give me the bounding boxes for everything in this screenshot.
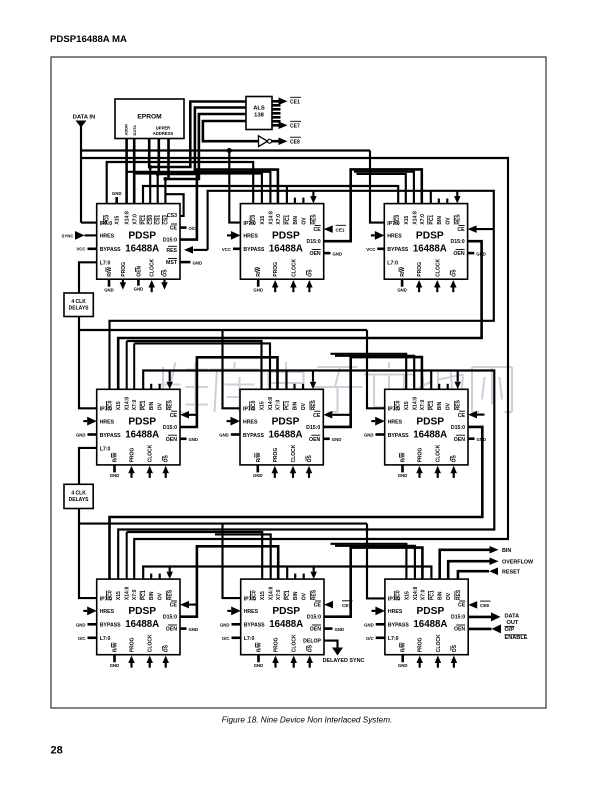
wire X14:8 feed U6: [335, 356, 414, 390]
svg-text:X14:8: X14:8: [125, 397, 131, 411]
svg-text:GND: GND: [333, 251, 343, 256]
svg-text:L7:0: L7:0: [244, 636, 255, 642]
svg-text:PROG: PROG: [130, 637, 136, 652]
svg-text:PROG: PROG: [274, 637, 280, 652]
svg-text:IP7:0: IP7:0: [100, 407, 113, 413]
wire U4 L7:0 to delay2: [79, 448, 97, 484]
svg-text:PROG: PROG: [418, 637, 424, 652]
svg-text:16488A: 16488A: [269, 244, 303, 255]
device U8 PDSP16488A: [241, 579, 324, 655]
clock/input arrow U9 CLOCK: [435, 656, 442, 668]
svg-text:PC1: PC1: [141, 400, 147, 410]
svg-text:VCC: VCC: [222, 247, 231, 252]
svg-text:RES: RES: [311, 214, 317, 225]
svg-text:PDSP: PDSP: [128, 606, 156, 617]
svg-text:IP7:0: IP7:0: [388, 407, 401, 413]
device U2 PDSP16488A: [240, 204, 323, 280]
svg-text:OS: OS: [164, 644, 170, 652]
svg-text:OEN: OEN: [454, 627, 465, 633]
wire X14:8 feed U9: [335, 546, 415, 579]
svg-text:PROG: PROG: [121, 262, 127, 277]
svg-text:X14:8: X14:8: [268, 397, 274, 411]
svg-text:HRES: HRES: [244, 609, 259, 615]
svg-text:BIN: BIN: [437, 591, 443, 600]
svg-text:CE7: CE7: [342, 603, 351, 608]
wire U3 PC1 drop: [430, 191, 432, 204]
net RESET input: [458, 567, 521, 579]
clock/input arrow U5 CLOCK: [290, 466, 297, 478]
wire branch to U5 IP7:0: [223, 330, 241, 408]
ALS138 output stubs: [272, 105, 281, 121]
wire PC1/RES distribution row2: [118, 371, 494, 580]
label O/C stub U7 L7:0: [78, 636, 97, 641]
svg-text:R/W: R/W: [113, 452, 119, 462]
svg-text:X7:0: X7:0: [420, 214, 426, 225]
ground stub U3 R/W: [397, 279, 407, 292]
svg-text:CS0: CS0: [148, 215, 154, 225]
svg-text:16488A: 16488A: [125, 619, 159, 630]
svg-text:OS: OS: [164, 455, 170, 463]
svg-text:PDSP16488A MA: PDSP16488A MA: [50, 34, 127, 45]
svg-text:RESET: RESET: [502, 569, 521, 575]
wire U2 D15:0 cascade to U3 X7:0: [324, 169, 422, 241]
label O/C stub U9 L7:0: [366, 636, 385, 641]
ground stub U5 BYPASS: [219, 433, 240, 438]
ground stub U4 BYPASS: [76, 433, 97, 438]
wire X14:8 link U4-U5: [127, 341, 262, 389]
svg-text:X14:8: X14:8: [268, 211, 274, 225]
svg-text:CS3: CS3: [167, 213, 177, 219]
junction CS2 tap: [163, 177, 167, 181]
svg-text:OEN: OEN: [309, 251, 320, 257]
arrow U3 HRES: [371, 231, 384, 240]
svg-text:DATA: DATA: [132, 125, 137, 136]
svg-text:GND: GND: [253, 473, 263, 478]
ground stub U8 OEN: [324, 627, 344, 632]
svg-text:GND: GND: [253, 288, 263, 293]
device U4 PDSP16488A: [97, 389, 180, 465]
svg-text:X7:0: X7:0: [420, 589, 426, 600]
svg-text:PC1: PC1: [429, 215, 435, 225]
stub U4 OV: [159, 384, 161, 390]
wire U8 D15:0 cascade to U9 X7:0: [324, 548, 422, 617]
wire U1 CS0: [149, 167, 151, 204]
svg-text:X14:8: X14:8: [413, 397, 419, 411]
output arrow U1 PROG: [120, 280, 127, 290]
svg-text:HRES: HRES: [100, 419, 115, 425]
svg-text:R/W: R/W: [256, 267, 262, 277]
svg-text:R/W: R/W: [401, 452, 407, 462]
svg-text:OS: OS: [163, 269, 169, 277]
wire to U3 IP7:0: [370, 151, 384, 223]
svg-text:IP7:0: IP7:0: [388, 596, 401, 602]
wire U2 RES arrow: [310, 191, 317, 204]
svg-text:RES: RES: [455, 214, 461, 225]
svg-text:GND: GND: [112, 191, 122, 196]
svg-text:O/C: O/C: [366, 636, 374, 641]
net SYNC input U1 HRES: [62, 231, 97, 240]
power VCC stub U2 BYPASS: [222, 247, 240, 252]
svg-text:L7:0: L7:0: [100, 636, 111, 642]
svg-text:OS: OS: [451, 269, 457, 277]
wire U5 CE arrow: [323, 411, 350, 419]
svg-text:PDSP: PDSP: [272, 606, 300, 617]
wire EPROM upper address C to ALS input 3: [167, 139, 170, 180]
svg-text:CLOCK: CLOCK: [292, 634, 298, 652]
svg-text:CLOCK: CLOCK: [291, 259, 297, 277]
net DATA OUT output: [468, 612, 519, 626]
svg-text:R/W: R/W: [401, 642, 407, 652]
ground stub U8 R/W: [254, 655, 264, 668]
junction CS1 tap: [156, 172, 160, 176]
clock/input arrow U2 OS: [306, 280, 313, 292]
svg-text:R/W: R/W: [107, 267, 113, 277]
svg-text:RES: RES: [312, 589, 318, 600]
device U6 PDSP16488A: [385, 389, 468, 465]
ground stub U6 OEN: [468, 437, 486, 442]
wire delay1 out to U4 IP7:0: [79, 317, 97, 409]
device U5 PDSP16488A: [240, 389, 323, 465]
wire branch to U9 IP7:0: [367, 524, 385, 599]
svg-text:BIN: BIN: [149, 591, 155, 600]
ground stub U1 X15: [112, 191, 122, 203]
stub U8 BIN: [294, 574, 296, 580]
svg-text:PDSP: PDSP: [416, 231, 444, 242]
svg-text:BYPASS: BYPASS: [243, 433, 264, 439]
svg-text:X7:0: X7:0: [133, 214, 139, 225]
svg-text:OV: OV: [446, 402, 452, 410]
svg-text:16488A: 16488A: [125, 429, 159, 440]
svg-text:O/P: O/P: [505, 627, 515, 633]
wire U3 RES arrow: [454, 191, 461, 204]
svg-text:BIN: BIN: [149, 401, 155, 410]
wire U2 PC1 drop: [286, 186, 288, 204]
svg-text:D15:0: D15:0: [307, 615, 321, 621]
svg-text:Figure 18. Nine Device Non Int: Figure 18. Nine Device Non Interlaced Sy…: [222, 716, 393, 725]
ground stub U7 R/W: [110, 655, 120, 668]
wire ALS input 4 to inverter input: [203, 121, 259, 141]
net CE8 label U9 CE: [468, 601, 490, 609]
ground stub U8 BYPASS: [220, 622, 241, 627]
svg-text:BYPASS: BYPASS: [388, 623, 409, 629]
svg-text:PC1: PC1: [285, 590, 291, 600]
wire X7:0 link U4-U5b: [134, 343, 270, 389]
svg-text:GND: GND: [193, 260, 203, 265]
svg-text:GND: GND: [189, 437, 199, 442]
ground stub U7 OEN: [180, 627, 198, 632]
stub U7 OV: [159, 574, 161, 580]
svg-text:GND: GND: [220, 622, 230, 627]
svg-text:GND: GND: [364, 433, 374, 438]
svg-text:GND: GND: [477, 437, 487, 442]
svg-text:DATA IN: DATA IN: [73, 114, 95, 120]
svg-text:HRES: HRES: [388, 419, 403, 425]
svg-text:D15:0: D15:0: [306, 425, 320, 431]
delay D1 4 CLK DELAYS: [64, 293, 93, 317]
svg-text:PROG: PROG: [273, 262, 279, 277]
svg-text:PC1: PC1: [141, 590, 147, 600]
clock/input arrow U6 PROG: [416, 466, 423, 478]
wire branch to U8 IP7:0: [223, 524, 241, 599]
svg-text:OV: OV: [301, 217, 307, 225]
svg-text:X7:0: X7:0: [132, 400, 138, 411]
svg-text:R/W: R/W: [113, 642, 119, 652]
stub U4 BIN: [150, 384, 152, 390]
svg-text:GND: GND: [189, 627, 199, 632]
svg-text:CE: CE: [314, 603, 322, 609]
wire X14:8 link U7-U8: [127, 532, 263, 579]
svg-text:BIN: BIN: [293, 216, 299, 225]
svg-text:ALS: ALS: [253, 106, 265, 112]
wire EPROM DATA bus to U1 X7:0: [133, 139, 136, 204]
svg-text:CE: CE: [313, 413, 321, 419]
wire U6 D15:0 wrap to U7 PC0: [110, 427, 483, 579]
svg-text:OS: OS: [308, 644, 314, 652]
wire U1 CS2: [164, 179, 166, 204]
svg-text:DELAYS: DELAYS: [69, 497, 89, 503]
svg-text:X15: X15: [115, 215, 121, 224]
svg-text:GND: GND: [398, 663, 408, 668]
svg-text:X14:8: X14:8: [269, 587, 275, 601]
svg-text:D15:0: D15:0: [163, 425, 177, 431]
svg-text:X15: X15: [260, 591, 266, 600]
svg-text:RES: RES: [168, 589, 174, 600]
arrow U6 HRES: [371, 417, 384, 426]
svg-text:CLOCK: CLOCK: [436, 444, 442, 462]
svg-text:CE: CE: [170, 226, 178, 232]
svg-text:16488A: 16488A: [269, 619, 303, 630]
svg-text:CE7: CE7: [290, 124, 300, 130]
wire U7 RES arrow: [166, 567, 173, 580]
clock/input arrow U7 OS: [162, 656, 169, 668]
svg-text:PC1: PC1: [429, 400, 435, 410]
ground stub U7 BYPASS: [76, 622, 97, 627]
clock/input arrow U3 PROG: [416, 280, 423, 292]
svg-text:X15: X15: [116, 401, 122, 410]
svg-text:X15: X15: [260, 401, 266, 410]
svg-text:CE8: CE8: [480, 603, 489, 608]
junction data line to U2 IP7:0: [227, 148, 232, 153]
svg-text:OUT: OUT: [507, 620, 519, 626]
stub U6 OV: [447, 384, 449, 390]
output arrow U1 OS: [161, 280, 168, 290]
wire RES distribution row1: [110, 191, 494, 389]
wire branch to U6 IP7:0: [367, 330, 385, 408]
svg-text:16488A: 16488A: [413, 244, 447, 255]
svg-text:16488A: 16488A: [413, 429, 447, 440]
svg-text:PDSP: PDSP: [416, 416, 444, 427]
svg-text:OV: OV: [158, 402, 164, 410]
svg-text:PC1: PC1: [285, 215, 291, 225]
svg-text:X15: X15: [404, 215, 410, 224]
svg-text:PDSP: PDSP: [128, 231, 156, 242]
svg-text:16488A: 16488A: [413, 619, 447, 630]
svg-text:X14:8: X14:8: [413, 587, 419, 601]
svg-text:X7:0: X7:0: [420, 400, 426, 411]
svg-text:CE1: CE1: [336, 227, 345, 232]
svg-text:4 CLK: 4 CLK: [71, 299, 86, 305]
arrow U5 HRES: [227, 417, 240, 426]
stub U5 OV: [302, 384, 304, 390]
net CE7 label U8 CE: [324, 601, 353, 609]
wire U8 DELOP to delayed sync: [323, 641, 365, 664]
stub U3 OV: [446, 199, 448, 204]
svg-text:PDSP: PDSP: [272, 231, 300, 242]
svg-text:GND: GND: [76, 433, 86, 438]
device U1 PDSP16488A: [97, 204, 180, 280]
svg-text:D15:0: D15:0: [307, 239, 321, 245]
svg-text:X7:0: X7:0: [276, 589, 282, 600]
power VCC stub U1 BYPASS: [76, 247, 96, 252]
wire U1 CS3 feed: [165, 194, 183, 216]
svg-text:BYPASS: BYPASS: [244, 623, 265, 629]
svg-text:OV: OV: [446, 592, 452, 600]
svg-text:GND: GND: [397, 288, 407, 293]
svg-text:OEN: OEN: [453, 251, 464, 257]
svg-text:RES: RES: [456, 399, 462, 410]
svg-text:IP7:0: IP7:0: [243, 221, 256, 227]
wire X15 feed U6: [331, 354, 407, 390]
stub U8 OV: [303, 574, 305, 580]
ground stub U9 BYPASS: [364, 622, 385, 627]
svg-text:GND: GND: [110, 473, 120, 478]
svg-text:PDSP: PDSP: [128, 416, 156, 427]
watermark: [158, 362, 512, 412]
net OVERFLOW output: [448, 557, 534, 579]
wire U1 L7:0 to delay1: [79, 262, 97, 293]
ground stub U4 OEN: [180, 437, 198, 442]
svg-text:OV: OV: [301, 402, 307, 410]
svg-text:EPROM: EPROM: [137, 114, 162, 121]
wire U6 PC1 drop: [430, 371, 432, 390]
svg-text:PROG: PROG: [418, 448, 424, 463]
ground stub U1 MST: [180, 260, 202, 265]
wire EPROM upper address A to ALS input 1: [149, 102, 246, 168]
net CE1 label U2 CE: [324, 225, 346, 233]
stub U5 BIN: [293, 384, 295, 390]
svg-text:CE: CE: [313, 227, 321, 233]
svg-text:28: 28: [51, 745, 63, 757]
clock/input arrow U9 PROG: [416, 656, 423, 668]
svg-text:R/W: R/W: [256, 452, 262, 462]
svg-text:CLOCK: CLOCK: [435, 259, 441, 277]
ground stub U5 R/W: [253, 465, 263, 478]
svg-text:RES: RES: [166, 248, 177, 254]
svg-text:138: 138: [254, 113, 264, 119]
svg-text:ENABLE: ENABLE: [505, 635, 528, 641]
svg-text:L7:0: L7:0: [100, 446, 111, 452]
svg-text:CE1: CE1: [290, 100, 300, 106]
wire PC1/RES distribution row3: [143, 567, 431, 580]
stub U3 BIN: [438, 199, 440, 204]
svg-text:BYPASS: BYPASS: [100, 623, 121, 629]
svg-text:X14:8: X14:8: [412, 211, 418, 225]
svg-text:CLOCK: CLOCK: [150, 259, 156, 277]
clock/input arrow U7 CLOCK: [146, 656, 153, 668]
svg-text:L7:0: L7:0: [388, 636, 399, 642]
svg-text:BIN: BIN: [437, 216, 443, 225]
svg-text:CLOCK: CLOCK: [148, 444, 154, 462]
wire PC1 chain row1: [143, 186, 398, 204]
ground stub U2 OEN: [324, 251, 342, 256]
svg-text:HRES: HRES: [243, 234, 258, 240]
clock/input arrow U6 CLOCK: [434, 466, 441, 478]
svg-text:BIN: BIN: [293, 401, 299, 410]
svg-text:IP7:0: IP7:0: [100, 596, 113, 602]
wire U4 D15:0 cascade to U5 X7:0: [180, 357, 278, 427]
svg-text:D15:0: D15:0: [450, 239, 464, 245]
svg-text:PROG: PROG: [130, 448, 136, 463]
clock/input arrow U6 OS: [450, 466, 457, 478]
wire delay2 branch row3 IP feeds: [79, 523, 367, 525]
svg-text:L7:0: L7:0: [387, 261, 398, 267]
svg-text:OEN: OEN: [136, 265, 142, 276]
decoder U11 ALS138: [246, 97, 272, 130]
svg-text:IP7:0: IP7:0: [243, 407, 256, 413]
ground stub U1 R/W: [104, 279, 114, 292]
svg-text:OEN: OEN: [454, 437, 465, 443]
svg-text:X7:0: X7:0: [276, 400, 282, 411]
wire U3 D15:0 wrap to U4 X15: [118, 241, 481, 389]
net CE7 output: [272, 121, 301, 129]
svg-text:O/C: O/C: [222, 636, 230, 641]
svg-text:PDSP: PDSP: [272, 416, 300, 427]
wire X feed U8 X14:8: [215, 534, 271, 579]
svg-text:PROG: PROG: [273, 448, 279, 463]
svg-text:OS: OS: [452, 644, 458, 652]
svg-text:PC1: PC1: [141, 215, 147, 225]
svg-text:16488A: 16488A: [269, 429, 303, 440]
label O/C stub U8 L7:0: [222, 636, 241, 641]
clock/input arrow U1 CLOCK: [148, 280, 155, 292]
svg-text:GND: GND: [219, 433, 229, 438]
svg-text:X15: X15: [116, 591, 122, 600]
svg-text:IP7:0: IP7:0: [387, 221, 400, 227]
wire PC0 chain row1: [107, 162, 254, 204]
wire X15 feed U9: [331, 544, 407, 579]
ground stub U5 OEN: [323, 437, 341, 442]
svg-text:CE: CE: [458, 603, 466, 609]
svg-text:O/C: O/C: [78, 636, 86, 641]
arrow U4 HRES: [83, 417, 96, 426]
clock/input arrow U5 OS: [306, 466, 313, 478]
svg-text:X15: X15: [404, 591, 410, 600]
svg-text:GND: GND: [335, 627, 345, 632]
svg-text:GND: GND: [254, 663, 264, 668]
svg-text:UPPER: UPPER: [156, 126, 170, 131]
svg-text:OS: OS: [307, 269, 313, 277]
svg-text:DELAYED SYNC: DELAYED SYNC: [323, 658, 365, 664]
svg-text:X7:0: X7:0: [276, 214, 282, 225]
inverter U12: [259, 136, 272, 147]
svg-text:CS1: CS1: [156, 215, 162, 225]
svg-text:R/W: R/W: [257, 642, 263, 652]
wire data-in distribution row1: [81, 149, 370, 151]
svg-text:OEN: OEN: [166, 437, 177, 443]
net CE8 output: [272, 137, 301, 145]
clock/input arrow U3 CLOCK: [434, 280, 441, 292]
svg-text:CLOCK: CLOCK: [148, 634, 154, 652]
svg-text:D15:0: D15:0: [163, 238, 177, 244]
clock/input arrow U4 PROG: [128, 466, 135, 478]
ground stub U2 R/W: [253, 279, 263, 292]
figure border frame: [51, 57, 546, 708]
clock/input arrow U3 OS: [450, 280, 457, 292]
device U9 PDSP16488A: [385, 579, 468, 655]
delay D2 4 CLK DELAYS: [64, 484, 93, 508]
svg-text:OS: OS: [452, 455, 458, 463]
device U7 PDSP16488A: [97, 579, 180, 655]
